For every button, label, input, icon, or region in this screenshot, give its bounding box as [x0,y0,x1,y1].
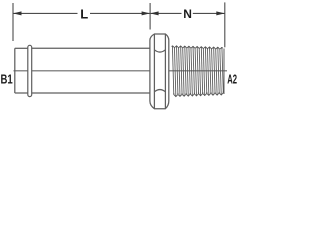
extension line right for N dimension [224,2,226,47]
threaded male end: crest ridges [172,46,224,97]
arrowhead L right [142,11,151,15]
dimension line N left segment [150,12,181,14]
stem top outline right of bead [32,47,150,49]
hex nut silhouette [150,34,169,109]
stem bottom outline left of bead [15,92,28,94]
centerline through fitting axis [14,70,228,72]
hex face edge right [164,34,166,109]
dimension line L left segment [13,12,78,14]
extension line left for L dimension [12,3,14,41]
svg-text:N: N [183,7,192,21]
hex chamfer arc top [154,50,165,52]
svg-text:B1: B1 [1,73,13,87]
dimension line N right segment [193,12,225,14]
arrowhead N left [150,11,159,15]
stem bottom outline right of bead [32,92,150,94]
svg-text:A2: A2 [227,73,237,87]
stem top outline left of bead [15,47,28,49]
stem left end face [14,48,16,93]
dimension line L right segment [90,12,150,14]
arrowhead L left [13,11,22,15]
arrowhead N right [216,11,225,15]
hex face edge left [153,34,155,109]
hex chamfer arc bottom [154,90,165,92]
svg-text:L: L [80,6,88,21]
thread end face [223,49,225,95]
extension line middle shared by L and N [149,3,151,30]
barb bead ring [28,45,32,96]
